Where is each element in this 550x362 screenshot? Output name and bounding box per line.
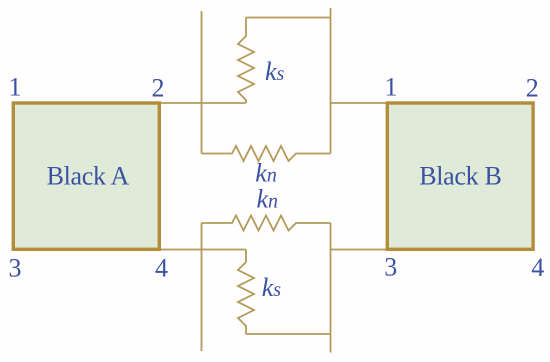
wire: bottom-left dangling vertical (crosses pin4 wire) [201,223,203,351]
black box B [387,103,533,249]
svg-text:kn: kn [257,185,279,214]
wire: ks top lead horizontal to right vertical bus [246,17,331,19]
svg-text:1: 1 [385,73,398,102]
svg-text:3: 3 [384,253,397,282]
svg-text:3: 3 [9,253,22,282]
wire: right bus to Black B pin3 [331,249,388,251]
wire: top-left dangling vertical (crosses pin2 wire) [201,11,203,154]
black box A [13,103,159,249]
wire: top-right vertical bus [330,8,332,154]
resistor ks (bottom) [238,250,254,335]
resistor ks (top) [238,18,254,104]
resistor kn (lower) [202,216,331,231]
svg-text:2: 2 [526,73,539,102]
svg-text:Black A: Black A [47,162,130,191]
svg-text:2: 2 [152,73,165,102]
wire: right bus to Black B pin1 [331,102,388,104]
svg-text:Black B: Black B [419,162,501,191]
svg-text:kn: kn [255,159,277,188]
svg-text:ks: ks [262,273,282,302]
wire: ks bottom lead horizontal to right vertical bus [246,333,331,335]
wire: bottom-right vertical bus [330,223,332,353]
svg-text:4: 4 [531,253,544,282]
svg-text:4: 4 [155,254,168,283]
wire: Black A pin4 to ks bottom resistor top lead [161,249,246,251]
svg-text:1: 1 [9,73,22,102]
wire: Black A pin2 to ks top resistor bottom lead [161,102,246,104]
resistor kn (upper) [202,146,331,161]
svg-text:ks: ks [265,57,285,86]
